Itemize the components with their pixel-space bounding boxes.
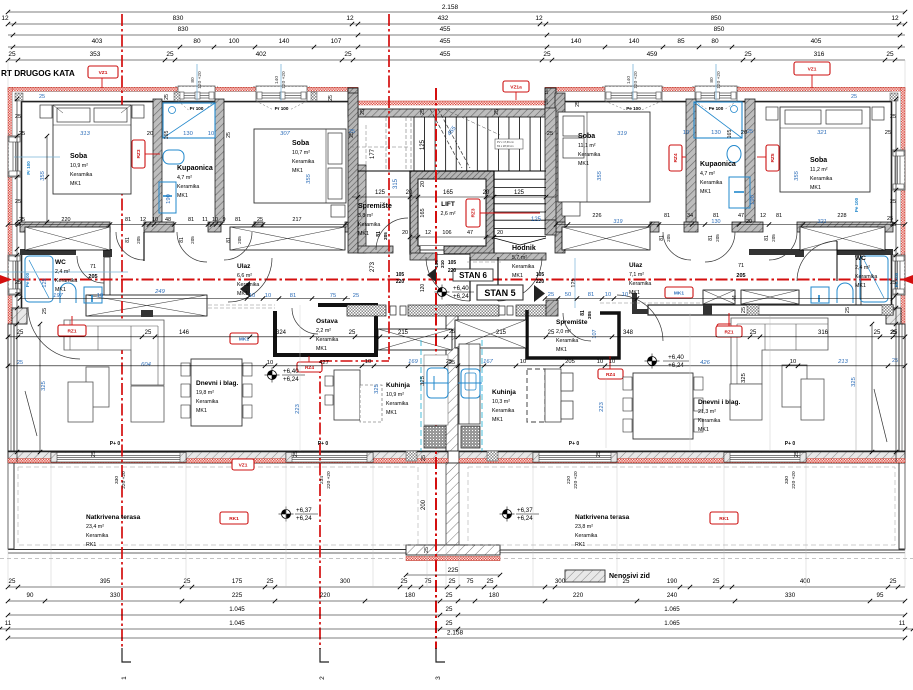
- svg-text:403: 403: [92, 38, 103, 45]
- svg-text:120 +20: 120 +20: [633, 71, 639, 89]
- svg-text:226: 226: [592, 213, 601, 219]
- svg-text:4,7 m²: 4,7 m²: [177, 175, 192, 181]
- svg-text:25: 25: [184, 578, 191, 585]
- svg-text:850: 850: [711, 15, 722, 22]
- svg-text:21,3 m²: 21,3 m²: [698, 409, 716, 415]
- svg-text:205: 205: [190, 236, 195, 244]
- svg-text:11,2 m²: 11,2 m²: [810, 167, 828, 173]
- svg-text:455: 455: [440, 26, 451, 33]
- svg-text:Keramika: Keramika: [512, 264, 534, 270]
- svg-text:20: 20: [420, 181, 426, 187]
- svg-text:307: 307: [280, 131, 290, 137]
- svg-text:Keramika: Keramika: [855, 274, 877, 280]
- svg-text:25: 25: [713, 578, 720, 585]
- svg-text:177: 177: [370, 148, 376, 159]
- svg-text:325: 325: [41, 381, 47, 391]
- svg-text:MK1: MK1: [358, 231, 369, 237]
- svg-text:3,8 m²: 3,8 m²: [358, 213, 373, 219]
- svg-text:220 +20: 220 +20: [573, 471, 579, 489]
- svg-text:125: 125: [420, 139, 426, 150]
- svg-text:1.065: 1.065: [664, 620, 680, 627]
- svg-text:25: 25: [885, 130, 891, 136]
- svg-text:44: 44: [732, 295, 738, 301]
- svg-text:205: 205: [565, 359, 575, 365]
- svg-text:RZ3: RZ3: [136, 149, 142, 158]
- svg-text:STAN 5: STAN 5: [484, 288, 515, 298]
- svg-text:VZ1: VZ1: [239, 462, 248, 468]
- svg-text:432: 432: [438, 15, 449, 22]
- svg-text:MK1: MK1: [492, 417, 503, 423]
- svg-text:12: 12: [535, 15, 543, 22]
- svg-text:220 +20: 220 +20: [121, 471, 127, 489]
- svg-text:Pr 100: Pr 100: [26, 161, 31, 175]
- svg-text:+6,40: +6,40: [453, 285, 469, 292]
- svg-text:25: 25: [890, 280, 896, 286]
- svg-text:20: 20: [147, 131, 153, 137]
- svg-text:RK1: RK1: [229, 516, 239, 522]
- svg-text:20: 20: [497, 230, 503, 236]
- svg-text:105: 105: [448, 260, 457, 266]
- svg-text:25: 25: [166, 51, 174, 58]
- svg-text:12: 12: [891, 15, 899, 22]
- svg-text:81: 81: [588, 292, 594, 298]
- svg-text:Dnevni i blag.: Dnevni i blag.: [698, 399, 740, 406]
- svg-text:Soba: Soba: [578, 133, 595, 140]
- svg-text:321: 321: [817, 219, 826, 225]
- svg-text:80: 80: [193, 38, 201, 45]
- svg-text:Ulaz: Ulaz: [629, 262, 643, 269]
- svg-text:2.158: 2.158: [442, 4, 459, 11]
- svg-text:Keramika: Keramika: [86, 533, 108, 539]
- svg-text:Dnevni i blag.: Dnevni i blag.: [196, 380, 238, 387]
- svg-text:2,0 m²: 2,0 m²: [556, 329, 571, 335]
- svg-text:10: 10: [790, 359, 796, 365]
- svg-text:205: 205: [666, 234, 671, 242]
- svg-text:71: 71: [90, 264, 96, 270]
- svg-text:81: 81: [580, 310, 586, 316]
- svg-text:Pr 100: Pr 100: [190, 106, 204, 111]
- svg-text:330: 330: [785, 592, 796, 599]
- svg-text:Soba: Soba: [810, 157, 827, 164]
- svg-text:10: 10: [208, 131, 214, 137]
- svg-text:10: 10: [622, 292, 628, 298]
- svg-text:50: 50: [565, 292, 571, 298]
- svg-text:228: 228: [837, 213, 846, 219]
- svg-text:180: 180: [405, 592, 416, 599]
- svg-text:130: 130: [711, 130, 721, 136]
- svg-text:249: 249: [154, 289, 165, 295]
- svg-text:81: 81: [776, 213, 782, 219]
- svg-text:Soba: Soba: [70, 153, 87, 160]
- svg-text:10,3 m²: 10,3 m²: [492, 399, 510, 405]
- svg-text:325: 325: [741, 373, 747, 383]
- svg-text:25: 25: [349, 129, 355, 135]
- svg-text:107: 107: [592, 329, 598, 338]
- svg-text:130: 130: [183, 131, 193, 137]
- svg-text:2,6 m²: 2,6 m²: [440, 211, 455, 217]
- svg-text:12: 12: [140, 217, 146, 223]
- svg-text:P+ 0: P+ 0: [110, 441, 121, 447]
- svg-text:107: 107: [331, 38, 342, 45]
- svg-text:25: 25: [401, 578, 408, 585]
- svg-text:Keramika: Keramika: [292, 159, 314, 165]
- svg-text:RZ1: RZ1: [724, 329, 733, 335]
- svg-text:355: 355: [306, 173, 312, 183]
- svg-text:VZ1: VZ1: [99, 70, 108, 76]
- svg-text:81: 81: [664, 213, 670, 219]
- svg-text:10: 10: [605, 292, 611, 298]
- svg-text:455: 455: [440, 38, 451, 45]
- svg-text:81: 81: [226, 237, 232, 243]
- svg-text:2,4 m²: 2,4 m²: [855, 265, 870, 271]
- svg-text:Kuhinja: Kuhinja: [492, 389, 516, 396]
- svg-text:321: 321: [817, 130, 827, 136]
- svg-text:25: 25: [544, 99, 550, 105]
- svg-text:7,1 m²: 7,1 m²: [629, 272, 644, 278]
- svg-text:325: 325: [374, 384, 380, 394]
- svg-text:25: 25: [164, 94, 170, 100]
- svg-text:25: 25: [794, 451, 800, 457]
- svg-text:25: 25: [257, 217, 263, 223]
- svg-text:106: 106: [434, 260, 439, 268]
- svg-text:10,7 m²: 10,7 m²: [292, 150, 310, 156]
- svg-text:1.045: 1.045: [229, 620, 245, 627]
- svg-text:48: 48: [165, 217, 171, 223]
- svg-text:+6,24: +6,24: [283, 376, 299, 383]
- svg-text:RZ5: RZ5: [770, 153, 776, 162]
- svg-text:220: 220: [396, 279, 405, 285]
- svg-text:VZ1a: VZ1a: [510, 84, 522, 90]
- svg-text:PV x 17,66 cm: PV x 17,66 cm: [497, 140, 514, 144]
- svg-text:81: 81: [290, 293, 296, 299]
- svg-text:12: 12: [425, 230, 431, 236]
- svg-text:11: 11: [5, 620, 12, 627]
- svg-text:197: 197: [53, 293, 63, 299]
- svg-text:10: 10: [597, 359, 603, 365]
- svg-text:25: 25: [575, 101, 581, 107]
- svg-text:225: 225: [448, 567, 459, 574]
- svg-text:RZ3: RZ3: [471, 208, 477, 217]
- svg-text:Keramika: Keramika: [196, 399, 218, 405]
- svg-text:213: 213: [837, 359, 848, 365]
- svg-text:12: 12: [346, 15, 354, 22]
- svg-text:25: 25: [15, 114, 21, 120]
- svg-text:85: 85: [677, 38, 685, 45]
- svg-text:140: 140: [279, 38, 290, 45]
- svg-text:10,9 m²: 10,9 m²: [386, 392, 404, 398]
- svg-text:25: 25: [487, 578, 494, 585]
- svg-text:P+ 0: P+ 0: [785, 441, 796, 447]
- svg-text:25: 25: [548, 330, 555, 336]
- svg-text:Kupaonica: Kupaonica: [700, 161, 736, 168]
- svg-text:25: 25: [890, 578, 897, 585]
- svg-text:167: 167: [483, 359, 493, 365]
- svg-text:15: 15: [544, 89, 550, 95]
- svg-text:47: 47: [467, 230, 473, 236]
- svg-text:LIFT: LIFT: [441, 201, 455, 208]
- svg-text:MK1: MK1: [239, 336, 249, 342]
- svg-text:165: 165: [727, 130, 733, 139]
- svg-text:Keramika: Keramika: [358, 222, 380, 228]
- svg-text:205: 205: [136, 236, 141, 244]
- svg-text:47: 47: [738, 213, 744, 219]
- svg-text:2,4 m²: 2,4 m²: [55, 269, 70, 275]
- svg-text:25: 25: [349, 330, 356, 336]
- svg-text:25: 25: [494, 109, 500, 115]
- svg-text:25: 25: [42, 308, 48, 314]
- svg-text:Spremište: Spremište: [556, 319, 588, 326]
- svg-text:215: 215: [398, 330, 409, 336]
- svg-text:+6,40: +6,40: [668, 354, 684, 361]
- svg-text:Natkrivena terasa: Natkrivena terasa: [575, 514, 630, 521]
- svg-text:324: 324: [276, 330, 287, 336]
- svg-text:10: 10: [609, 359, 615, 365]
- svg-text:11: 11: [899, 620, 906, 627]
- svg-text:240: 240: [667, 592, 678, 599]
- svg-text:Spremište: Spremište: [358, 203, 392, 210]
- svg-text:81: 81: [764, 235, 770, 241]
- svg-text:25: 25: [744, 51, 752, 58]
- svg-text:319: 319: [617, 131, 627, 137]
- svg-text:10: 10: [683, 130, 689, 136]
- svg-text:120 +20: 120 +20: [281, 71, 287, 89]
- svg-text:Keramika: Keramika: [492, 408, 514, 414]
- svg-text:25: 25: [548, 292, 554, 298]
- svg-text:Keramika: Keramika: [698, 418, 720, 424]
- svg-text:205: 205: [587, 311, 592, 319]
- svg-text:319: 319: [613, 219, 622, 225]
- svg-text:23,8 m²: 23,8 m²: [575, 524, 593, 530]
- svg-text:402: 402: [256, 51, 267, 58]
- svg-text:300: 300: [340, 578, 351, 585]
- svg-text:+6,40: +6,40: [283, 368, 299, 375]
- svg-text:25: 25: [874, 330, 881, 336]
- svg-text:MK1: MK1: [578, 161, 589, 167]
- svg-text:25: 25: [449, 578, 456, 585]
- svg-text:Keramika: Keramika: [810, 176, 832, 182]
- svg-text:604: 604: [141, 362, 151, 368]
- svg-text:405: 405: [811, 38, 822, 45]
- svg-text:426: 426: [700, 360, 710, 366]
- svg-text:P+ 0: P+ 0: [318, 441, 329, 447]
- svg-text:205: 205: [771, 234, 776, 242]
- svg-text:MK1: MK1: [292, 168, 303, 174]
- svg-text:6S x 28,30 cm: 6S x 28,30 cm: [497, 144, 514, 148]
- svg-text:1.045: 1.045: [229, 606, 245, 613]
- svg-text:+6,37: +6,37: [296, 507, 312, 514]
- svg-text:105: 105: [536, 272, 545, 278]
- svg-text:75: 75: [425, 578, 432, 585]
- svg-text:Soba: Soba: [292, 140, 309, 147]
- svg-text:146: 146: [179, 330, 190, 336]
- svg-text:+6,24: +6,24: [296, 515, 312, 522]
- svg-text:MK1: MK1: [700, 189, 711, 195]
- svg-text:Keramika: Keramika: [55, 278, 77, 284]
- svg-text:315: 315: [393, 178, 399, 189]
- svg-text:80: 80: [711, 38, 719, 45]
- svg-text:25: 25: [15, 280, 21, 286]
- svg-text:3: 3: [435, 676, 442, 680]
- svg-text:220: 220: [448, 268, 457, 274]
- svg-text:25: 25: [449, 329, 455, 335]
- svg-text:Pe 100: Pe 100: [626, 106, 641, 111]
- svg-text:25: 25: [421, 455, 427, 461]
- svg-text:395: 395: [100, 578, 111, 585]
- svg-text:+6,24: +6,24: [517, 515, 533, 522]
- svg-text:190: 190: [166, 194, 172, 204]
- svg-text:180: 180: [489, 592, 500, 599]
- svg-text:10: 10: [152, 217, 158, 223]
- svg-text:+6,37: +6,37: [517, 507, 533, 514]
- svg-text:25: 25: [360, 109, 366, 115]
- svg-text:Ulaz: Ulaz: [237, 263, 251, 270]
- svg-text:Pe 100: Pe 100: [709, 106, 724, 111]
- svg-text:90: 90: [27, 592, 34, 599]
- svg-text:200: 200: [421, 499, 427, 510]
- svg-text:10: 10: [267, 360, 273, 366]
- svg-text:RZ4: RZ4: [673, 153, 679, 162]
- svg-text:Kupaonica: Kupaonica: [177, 165, 213, 172]
- svg-text:10: 10: [97, 293, 103, 299]
- svg-text:MK1: MK1: [556, 347, 567, 353]
- svg-text:12: 12: [760, 213, 766, 219]
- svg-text:220: 220: [536, 279, 545, 285]
- svg-text:355: 355: [597, 170, 603, 180]
- svg-text:125: 125: [531, 217, 542, 223]
- svg-text:2,2 m²: 2,2 m²: [316, 328, 331, 334]
- svg-text:5,7 m²: 5,7 m²: [512, 255, 527, 261]
- svg-text:MK1: MK1: [177, 193, 188, 199]
- svg-text:25: 25: [890, 114, 896, 120]
- svg-text:VZ1: VZ1: [808, 66, 817, 72]
- svg-text:RZ4: RZ4: [606, 372, 615, 378]
- svg-text:165: 165: [420, 208, 426, 217]
- svg-text:25: 25: [91, 451, 97, 457]
- svg-text:MK1: MK1: [810, 185, 821, 191]
- svg-text:34: 34: [687, 213, 693, 219]
- svg-text:165: 165: [164, 131, 170, 140]
- svg-text:25: 25: [890, 199, 896, 205]
- svg-text:RT DRUGOG KATA: RT DRUGOG KATA: [1, 69, 75, 78]
- svg-text:81: 81: [659, 235, 665, 241]
- svg-text:75: 75: [467, 578, 474, 585]
- svg-text:220 +20: 220 +20: [326, 471, 332, 489]
- svg-text:205: 205: [736, 273, 745, 279]
- svg-text:210: 210: [440, 260, 445, 268]
- svg-text:190: 190: [750, 195, 756, 205]
- svg-text:MK1: MK1: [70, 181, 81, 187]
- svg-text:125: 125: [42, 278, 48, 287]
- svg-text:220: 220: [566, 476, 572, 484]
- svg-text:105: 105: [396, 272, 405, 278]
- svg-text:175: 175: [232, 578, 243, 585]
- svg-text:10,9 m²: 10,9 m²: [70, 163, 88, 169]
- svg-text:81: 81: [188, 217, 194, 223]
- svg-text:25: 25: [623, 578, 630, 585]
- svg-text:330: 330: [110, 592, 121, 599]
- svg-text:STAN 6: STAN 6: [459, 271, 487, 280]
- svg-text:MK1: MK1: [629, 290, 640, 296]
- svg-text:Kuhinja: Kuhinja: [386, 382, 410, 389]
- svg-text:25: 25: [845, 307, 851, 313]
- svg-text:25: 25: [886, 51, 894, 58]
- svg-text:25: 25: [15, 199, 21, 205]
- svg-text:348: 348: [623, 330, 634, 336]
- svg-text:81: 81: [708, 235, 714, 241]
- svg-text:140: 140: [629, 38, 640, 45]
- svg-text:205: 205: [383, 232, 388, 240]
- svg-text:10: 10: [249, 293, 255, 299]
- svg-text:25: 25: [892, 358, 898, 364]
- svg-text:10: 10: [520, 359, 526, 365]
- svg-text:19,8 m²: 19,8 m²: [196, 390, 214, 396]
- svg-text:830: 830: [173, 15, 184, 22]
- svg-text:25: 25: [19, 131, 25, 137]
- svg-text:330: 330: [114, 476, 120, 484]
- svg-text:140: 140: [571, 38, 582, 45]
- svg-text:223: 223: [599, 402, 605, 412]
- svg-text:459: 459: [647, 51, 658, 58]
- svg-text:25: 25: [750, 330, 757, 336]
- svg-text:273: 273: [370, 261, 376, 272]
- svg-text:20: 20: [406, 190, 413, 196]
- svg-text:Keramika: Keramika: [629, 281, 651, 287]
- svg-text:316: 316: [814, 51, 825, 58]
- svg-text:220 +20: 220 +20: [791, 471, 797, 489]
- svg-text:215: 215: [496, 330, 507, 336]
- svg-text:25: 25: [449, 360, 455, 366]
- svg-text:100: 100: [229, 38, 240, 45]
- svg-text:MK1: MK1: [855, 283, 866, 289]
- svg-text:353: 353: [90, 51, 101, 58]
- svg-text:220: 220: [573, 592, 584, 599]
- svg-text:25: 25: [39, 94, 45, 100]
- svg-text:125: 125: [571, 278, 577, 287]
- svg-text:75: 75: [330, 293, 336, 299]
- svg-text:125: 125: [514, 190, 525, 196]
- svg-text:20: 20: [746, 219, 752, 225]
- svg-text:25: 25: [446, 592, 453, 599]
- svg-text:25: 25: [446, 620, 453, 627]
- svg-text:25: 25: [17, 360, 23, 366]
- svg-text:190: 190: [667, 578, 678, 585]
- svg-text:10: 10: [365, 359, 371, 365]
- svg-text:120: 120: [420, 284, 426, 293]
- svg-text:Pe 100: Pe 100: [854, 197, 859, 212]
- svg-text:81: 81: [235, 217, 241, 223]
- svg-text:71: 71: [738, 263, 744, 269]
- svg-text:220: 220: [320, 592, 331, 599]
- svg-text:Keramika: Keramika: [70, 172, 92, 178]
- svg-text:25: 25: [741, 307, 747, 313]
- svg-text:23,4 m²: 23,4 m²: [86, 524, 104, 530]
- svg-text:WC: WC: [855, 255, 866, 262]
- svg-text:25: 25: [293, 451, 299, 457]
- svg-text:MK1: MK1: [674, 290, 684, 296]
- svg-text:Keramika: Keramika: [177, 184, 199, 190]
- svg-text:205: 205: [715, 234, 720, 242]
- svg-text:25: 25: [344, 51, 352, 58]
- svg-text:Keramika: Keramika: [578, 152, 600, 158]
- svg-text:106: 106: [442, 230, 451, 236]
- svg-text:MK1: MK1: [698, 427, 709, 433]
- svg-text:120 +20: 120 +20: [197, 71, 203, 89]
- svg-text:225: 225: [232, 592, 243, 599]
- svg-text:205: 205: [237, 236, 242, 244]
- svg-text:455: 455: [440, 51, 451, 58]
- svg-text:25: 25: [596, 451, 602, 457]
- svg-text:25: 25: [747, 129, 753, 135]
